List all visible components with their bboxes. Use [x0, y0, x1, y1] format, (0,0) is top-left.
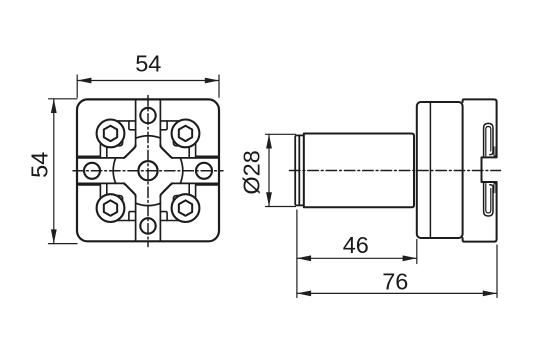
horizontal slot edges — [77, 156, 219, 185]
flange outer square — [77, 99, 219, 241]
screw pocket lines top-right — [160, 121, 195, 158]
screw bottom-left — [97, 194, 125, 222]
svg-text:46: 46 — [343, 232, 369, 258]
dimension diameter 28 — [266, 134, 296, 206]
centerline horizontal side view — [290, 170, 501, 172]
square flange side view block B — [463, 99, 497, 241]
body block A — [417, 102, 463, 238]
center hole — [138, 161, 157, 180]
small hole left — [84, 163, 100, 179]
small hole bottom — [140, 218, 155, 233]
svg-text:76: 76 — [382, 269, 408, 295]
retaining clip bottom — [484, 182, 496, 216]
shaft — [304, 134, 414, 208]
vertical slot edges — [136, 99, 161, 241]
shaft end cap — [295, 135, 304, 205]
screw bottom-right — [172, 194, 200, 222]
spotface circle arcs R34.7 — [113, 136, 182, 206]
screw top-right — [172, 119, 200, 147]
small hole right — [196, 163, 212, 179]
svg-text:Ø28: Ø28 — [239, 150, 265, 194]
screw pocket lines top-left — [100, 121, 135, 158]
screw top-left — [97, 119, 125, 147]
small hole top — [140, 108, 155, 123]
centerline vertical front view — [147, 96, 149, 247]
dimension 76 — [297, 245, 497, 298]
dimension 46 — [297, 210, 417, 298]
screw pocket lines bottom-left — [100, 183, 135, 220]
dimension 54 top — [77, 75, 219, 97]
boss chamfer corners — [124, 145, 172, 196]
screw pocket lines bottom-right — [160, 183, 195, 220]
svg-text:54: 54 — [26, 152, 52, 178]
centerline horizontal front view — [73, 170, 223, 172]
dimension 54 left — [49, 99, 78, 244]
body block A inner line — [429, 103, 431, 238]
svg-text:54: 54 — [135, 51, 161, 77]
retaining clip top — [484, 123, 496, 157]
